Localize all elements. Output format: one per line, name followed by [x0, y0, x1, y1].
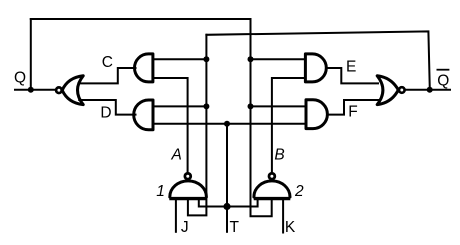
- wire top feedback line 1 (Q to bus R): [31, 18, 251, 20]
- wire T branch to gate 2: [227, 200, 258, 207]
- svg-text:J: J: [181, 219, 189, 236]
- wire C lower input from node A: [153, 78, 188, 173]
- svg-text:D: D: [100, 105, 111, 122]
- node Q junction: [28, 87, 34, 93]
- node E upper input junction: [248, 56, 254, 62]
- node D upper input junction: [203, 103, 209, 109]
- svg-text:E: E: [346, 58, 356, 75]
- wire T bus vertical: [226, 124, 228, 232]
- wire D upper input: [153, 105, 206, 107]
- svg-text:C: C: [102, 54, 113, 71]
- label Q-bar overline: [437, 69, 450, 71]
- wire E output to NOR: [327, 68, 378, 83]
- wire K input: [282, 200, 284, 233]
- wire C output to NOR: [80, 68, 136, 83]
- wire C upper input: [153, 58, 207, 60]
- node T bottom junction: [223, 203, 230, 210]
- svg-text:Q: Q: [437, 72, 449, 89]
- NAND 2 bubble: [269, 173, 275, 179]
- wire J input: [175, 200, 177, 232]
- wire bus P vertical: [188, 35, 207, 216]
- wire left feedback vertical: [30, 19, 32, 90]
- NAND 1 bubble: [185, 173, 191, 179]
- wire Q output lead: [15, 89, 55, 91]
- NAND gate 2 dome: [254, 181, 290, 197]
- wire top feedback line 2 (bus P to Q-bar): [206, 31, 429, 89]
- NOR gate left (Q): [62, 76, 83, 105]
- svg-text:B: B: [274, 147, 284, 164]
- wire D-F lower input line: [153, 123, 306, 125]
- AND gate D: [134, 100, 153, 130]
- node F upper input junction: [248, 103, 254, 109]
- NAND gate 1 dome: [170, 181, 207, 197]
- wire F upper input: [251, 105, 307, 107]
- AND gate F: [306, 100, 327, 129]
- AND gate C: [135, 54, 153, 82]
- svg-text:T: T: [229, 219, 239, 236]
- wire E lower input from node B: [272, 78, 306, 173]
- svg-text:F: F: [348, 104, 357, 121]
- wire bus R vertical: [251, 19, 272, 216]
- wire E upper input: [251, 58, 306, 60]
- wire D output to NOR: [79, 100, 135, 115]
- NOR left bubble: [56, 87, 62, 93]
- svg-text:1: 1: [156, 183, 165, 200]
- svg-text:2: 2: [294, 183, 304, 200]
- NAND gate 1 bottom bar: [169, 197, 206, 200]
- AND gate E: [305, 54, 326, 82]
- wire T branch to gate 1: [199, 200, 227, 207]
- NAND gate 2 bottom bar: [254, 197, 291, 200]
- node C upper input junction: [203, 56, 209, 62]
- node Q-bar junction: [427, 87, 433, 93]
- svg-text:A: A: [171, 147, 182, 164]
- svg-text:K: K: [285, 219, 296, 236]
- NOR gate right (Q-bar): [377, 76, 398, 105]
- node T top junction: [224, 121, 230, 127]
- NOR right bubble: [399, 87, 405, 93]
- svg-text:Q: Q: [14, 69, 26, 86]
- wire Q-bar output lead: [405, 89, 450, 91]
- wire F output to NOR: [328, 100, 378, 115]
